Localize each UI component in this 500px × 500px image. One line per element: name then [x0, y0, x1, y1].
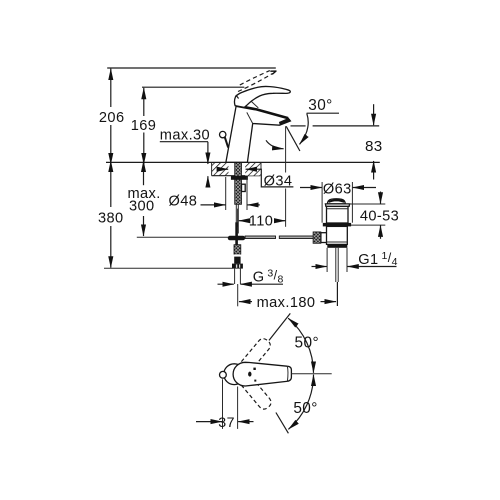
svg-text:Ø48: Ø48 — [169, 193, 198, 209]
dimension 37 — [196, 379, 254, 431]
handle tip inner line — [286, 366, 289, 381]
svg-text:40-53: 40-53 — [360, 208, 399, 224]
svg-text:300: 300 — [129, 199, 155, 215]
raised lever dashed upper — [240, 71, 270, 85]
drain upper body — [327, 206, 349, 223]
top reference line (206 upper) — [107, 67, 276, 69]
svg-text:Ø34: Ø34 — [264, 173, 293, 189]
dimension 110 — [238, 126, 286, 230]
pop-up rod cross fitting — [228, 236, 245, 241]
svg-text:50°: 50° — [295, 334, 319, 351]
spout top edge thick — [236, 106, 288, 118]
aerator band — [279, 118, 291, 126]
lever-top reference line (169 upper) — [142, 86, 244, 88]
upper 50 leg — [269, 313, 290, 340]
svg-text:37: 37 — [218, 415, 235, 431]
dimension G3/8 — [218, 267, 284, 285]
dimension 30deg — [266, 97, 339, 151]
pop-up rod knob — [220, 131, 226, 137]
handle detail marks — [253, 368, 255, 370]
G3/8 connector — [234, 257, 240, 264]
dimension max.30 — [160, 128, 210, 185]
drain knurled knob — [313, 232, 321, 243]
dimension 380 — [98, 161, 124, 268]
dimension Ø48 — [169, 177, 260, 210]
svg-text:206: 206 — [99, 110, 125, 126]
lower 50 leg — [276, 413, 289, 434]
svg-text:30°: 30° — [308, 97, 332, 114]
raised lever dashed lower — [238, 74, 273, 92]
drain washer flange — [323, 223, 351, 227]
raised lever front dash — [236, 95, 239, 99]
dimension 169 — [131, 88, 157, 165]
threaded shank — [235, 163, 242, 205]
pipe below G3/8 — [234, 269, 236, 284]
dimension 206 — [99, 69, 125, 165]
lever handle — [235, 86, 291, 107]
pop-up knob top view — [220, 371, 227, 378]
mounting nut — [231, 176, 248, 180]
set screw block — [242, 184, 246, 191]
supply pipes below shank — [235, 204, 237, 233]
dimension Ø34 leader — [218, 169, 294, 189]
50 deg lower arc — [288, 375, 313, 430]
50 deg upper arc — [288, 318, 313, 373]
svg-text:Ø63: Ø63 — [323, 181, 352, 197]
svg-text:83: 83 — [365, 138, 383, 155]
knurled hose adapter — [234, 245, 241, 254]
centerline right — [292, 373, 332, 375]
drain lower body — [327, 226, 348, 244]
handle dome circle — [224, 364, 245, 385]
counter cross-section hatched right — [245, 162, 261, 175]
dimension Ø63 — [300, 181, 376, 222]
counter cross-section hatched left — [212, 162, 261, 175]
raised lever tip — [270, 71, 276, 74]
dashed handle upper (+50) — [237, 336, 272, 375]
svg-text:110: 110 — [249, 214, 273, 230]
drain tailpipe — [335, 248, 337, 282]
dimension max.300 — [127, 161, 160, 236]
counter top line — [106, 161, 380, 163]
svg-text:50°: 50° — [293, 400, 317, 417]
dimension max.180 — [239, 295, 336, 311]
svg-text:169: 169 — [131, 118, 157, 134]
dimension 83 — [291, 104, 383, 179]
drain lock ring — [327, 244, 347, 247]
drain pop-up waste: dome cap — [327, 199, 345, 204]
380 bottom reference line — [104, 267, 233, 269]
dome lip — [325, 204, 349, 207]
svg-text:max.180: max.180 — [257, 295, 316, 311]
spout inner crease — [247, 112, 253, 123]
dashed handle lower (-50) — [238, 373, 273, 412]
lever-dome wedge line — [246, 97, 258, 108]
faucet body — [226, 106, 291, 163]
dimension G1 1/4 — [312, 248, 398, 272]
dimension 40-53 — [349, 192, 399, 239]
handle top view — [233, 362, 291, 386]
max.300 bottom reference line — [137, 236, 228, 238]
pop-up linkage rod — [245, 236, 275, 239]
svg-text:380: 380 — [98, 211, 124, 227]
